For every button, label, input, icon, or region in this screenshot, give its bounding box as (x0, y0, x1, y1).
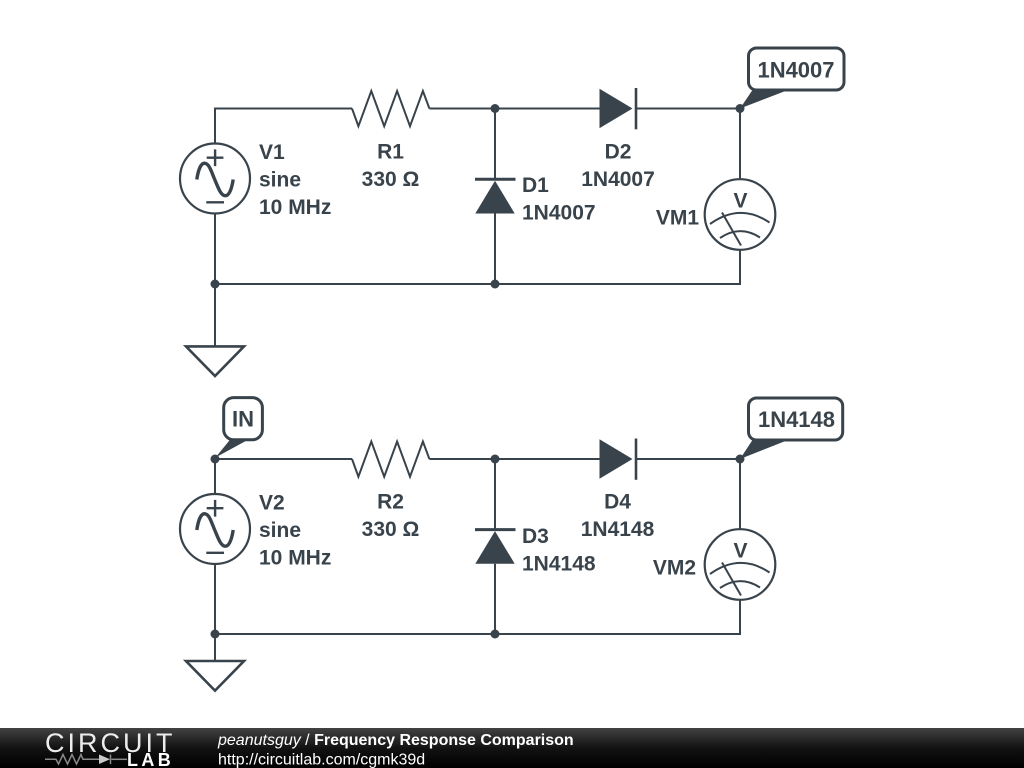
svg-text:1N4007: 1N4007 (581, 168, 655, 191)
svg-text:D2: D2 (605, 141, 632, 164)
node (491, 104, 500, 113)
wire (215, 214, 495, 285)
svg-text:IN: IN (232, 407, 254, 432)
svg-text:1N4148: 1N4148 (522, 553, 596, 576)
svg-text:V1: V1 (259, 141, 285, 164)
svg-text:10 MHz: 10 MHz (259, 547, 331, 570)
wire (429, 458, 599, 460)
wire (215, 564, 495, 634)
node (491, 280, 500, 289)
node (736, 104, 745, 113)
node (491, 630, 500, 639)
diode D2 (600, 88, 637, 129)
wire (429, 108, 599, 110)
wire (215, 459, 352, 494)
node (211, 630, 220, 639)
wire (495, 250, 740, 284)
svg-text:R1: R1 (377, 141, 404, 164)
wire (495, 600, 740, 634)
resistor R1 (352, 91, 429, 126)
svg-text:1N4148: 1N4148 (758, 407, 835, 432)
wire (739, 459, 741, 529)
CircuitLab logo (45, 728, 176, 768)
wire (494, 109, 496, 180)
node (211, 455, 220, 464)
net flag 1N4148 (740, 398, 843, 459)
svg-text:sine: sine (259, 519, 301, 542)
diode D4 (600, 439, 637, 480)
footer bar (0, 728, 1024, 768)
svg-text:D1: D1 (522, 174, 549, 197)
wire (494, 564, 496, 634)
ground (186, 634, 244, 691)
voltage source V1 (180, 144, 250, 214)
svg-text:LAB: LAB (127, 750, 174, 768)
voltmeter VM1 (705, 179, 776, 250)
svg-text:330 Ω: 330 Ω (362, 168, 420, 191)
svg-text:1N4148: 1N4148 (581, 518, 655, 541)
voltage source V2 (180, 494, 250, 564)
svg-text:D3: D3 (522, 525, 549, 548)
node (211, 280, 220, 289)
svg-text:VM2: VM2 (653, 557, 696, 580)
svg-text:1N4007: 1N4007 (757, 58, 834, 83)
svg-text:D4: D4 (604, 491, 631, 514)
net flag IN (216, 398, 263, 458)
net flag 1N4007 (740, 48, 844, 109)
svg-text:330 Ω: 330 Ω (362, 518, 420, 541)
svg-text:1N4007: 1N4007 (522, 202, 596, 225)
node (491, 455, 500, 464)
wire (636, 458, 740, 460)
ground (186, 284, 244, 376)
wire (739, 109, 741, 180)
svg-text:sine: sine (259, 169, 301, 192)
wire (494, 214, 496, 285)
svg-text:VM1: VM1 (656, 207, 700, 230)
diode D3 (475, 530, 516, 564)
wire (215, 109, 352, 144)
svg-text:V: V (733, 190, 747, 213)
wire (494, 459, 496, 530)
svg-text:peanutsguy / Frequency Respons: peanutsguy / Frequency Response Comparis… (217, 732, 574, 749)
svg-text:R2: R2 (377, 491, 404, 514)
node (736, 455, 745, 464)
svg-text:V: V (733, 540, 747, 563)
resistor R2 (352, 442, 429, 477)
wire (636, 108, 740, 110)
diode D1 (475, 179, 516, 213)
svg-text:V2: V2 (259, 492, 285, 515)
svg-text:http://circuitlab.com/cgmk39d: http://circuitlab.com/cgmk39d (218, 751, 425, 768)
voltmeter VM2 (705, 529, 776, 600)
svg-text:10 MHz: 10 MHz (259, 196, 331, 219)
